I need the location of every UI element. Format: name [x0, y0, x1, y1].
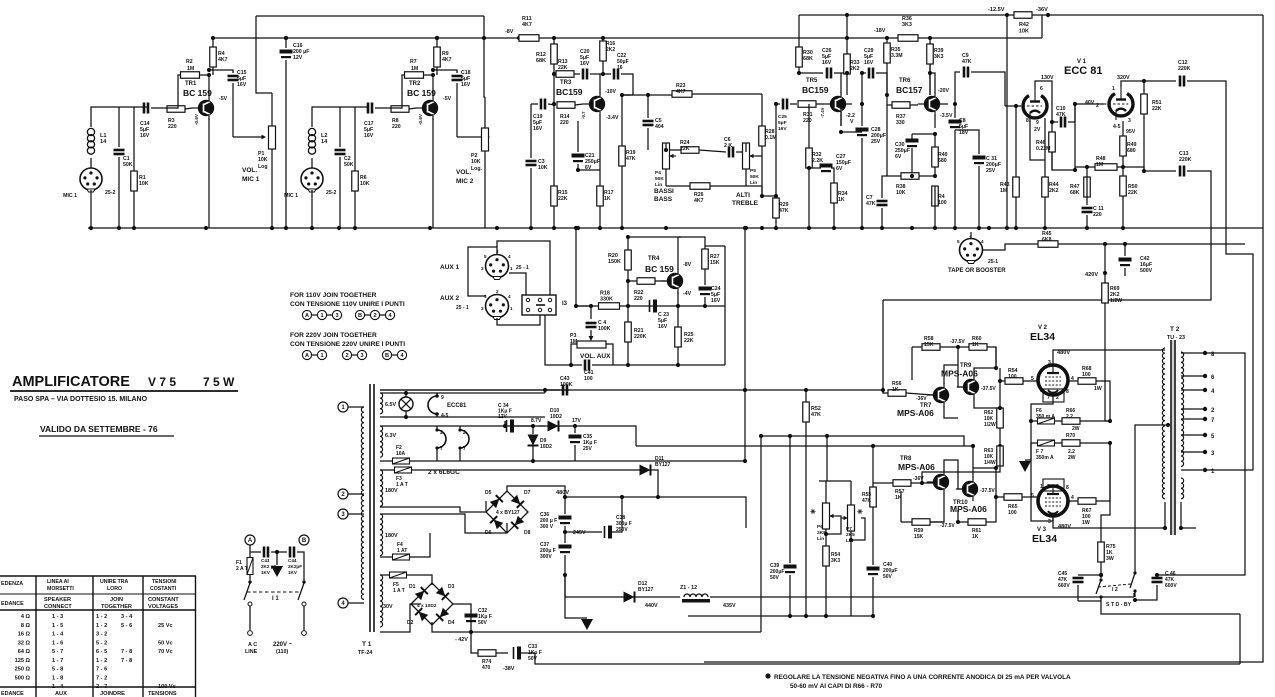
resistor R46 0.22M: [1036, 132, 1077, 172]
svg-text:LINE: LINE: [245, 649, 258, 655]
microphone connector MIC 1: [63, 168, 115, 199]
bridge output top 480V: [507, 486, 569, 499]
svg-text:100K: 100K: [598, 326, 611, 332]
svg-text:50V: 50V: [770, 575, 780, 581]
svg-text:15K: 15K: [924, 342, 934, 348]
svg-text:(110): (110): [276, 649, 288, 655]
svg-text:4: 4: [508, 254, 511, 259]
svg-text:-0.6V: -0.6V: [194, 113, 199, 125]
svg-text:TU - 23: TU - 23: [1167, 335, 1185, 341]
transformer T2 center tap: [1135, 423, 1170, 570]
svg-text:-37.5V: -37.5V: [980, 488, 995, 494]
fuse F4 1AT: [380, 533, 430, 560]
wire -38V rail: [535, 614, 1240, 664]
transistor TR7 MPS-A06: [897, 383, 949, 418]
svg-text:AUX 1: AUX 1: [440, 264, 460, 271]
svg-text:JOIN: JOIN: [110, 597, 123, 603]
wire secondary return: [1181, 527, 1196, 529]
svg-text:22K: 22K: [680, 146, 690, 152]
resistor R48 1M: [1087, 156, 1123, 170]
svg-text:18V: 18V: [959, 130, 969, 136]
svg-text:1K: 1K: [972, 534, 979, 540]
wire input node: [312, 107, 369, 127]
resistor R9 4K7: [431, 36, 452, 77]
wire TR4 box top: [626, 235, 681, 239]
capacitor C43 2K2pF 1KV: [250, 547, 277, 576]
svg-text:UNIRE TRA: UNIRE TRA: [100, 579, 128, 585]
svg-text:16V: 16V: [140, 133, 150, 139]
transformer T1 secondary 30V: [380, 575, 393, 627]
resistor R18 330K: [574, 291, 630, 310]
transformer T1 terminal 1: [338, 402, 364, 412]
svg-text:22K: 22K: [1152, 106, 1162, 112]
svg-text:3: 3: [1048, 360, 1051, 366]
svg-text:-36V: -36V: [1036, 7, 1048, 13]
svg-text:1W: 1W: [1094, 386, 1102, 392]
svg-text:P7: P7: [846, 526, 852, 532]
resistor R13 22K: [552, 59, 580, 77]
svg-text:D6: D6: [485, 530, 492, 536]
svg-text:600V: 600V: [1165, 583, 1177, 589]
resistor R39 3K3: [927, 38, 944, 95]
capacitor C37 200uF 300V: [540, 530, 572, 575]
resistor R63 10K 1/4W: [920, 446, 1003, 485]
svg-text:220K: 220K: [634, 334, 647, 340]
svg-text:5: 5: [484, 254, 487, 259]
svg-text:1W: 1W: [1082, 520, 1090, 526]
wire y446 bus: [636, 444, 975, 468]
transformer T2 primary winding: [1162, 348, 1167, 530]
svg-text:250V: 250V: [616, 527, 628, 533]
svg-text:14: 14: [100, 139, 107, 145]
note for 220V join: [290, 332, 405, 348]
svg-text:VOLTAGES: VOLTAGES: [148, 604, 178, 610]
note 110V join points: [302, 310, 394, 319]
resistor R50 22K: [1120, 167, 1138, 228]
svg-text:2K2pF: 2K2pF: [288, 564, 302, 569]
svg-text:250 Ω: 250 Ω: [15, 667, 31, 673]
diode D12 BY127: [565, 575, 680, 609]
wire winding to bridge: [380, 507, 507, 533]
wire 17V out: [590, 426, 636, 446]
wire mid vertical to driver bus: [743, 226, 747, 392]
svg-text:25 - 1: 25 - 1: [456, 305, 469, 311]
svg-text:BC 159: BC 159: [183, 88, 212, 98]
svg-text:68K: 68K: [803, 56, 813, 62]
svg-text:S T D - BY: S T D - BY: [1106, 602, 1132, 608]
svg-text:P6: P6: [817, 524, 823, 530]
resistor R23 4K7: [646, 83, 762, 97]
capacitor C12 220K: [1144, 60, 1253, 470]
svg-text:14: 14: [321, 139, 328, 145]
wire collector to ground bus: [432, 118, 434, 228]
svg-text:-3.4V: -3.4V: [606, 115, 619, 121]
svg-text:BC157: BC157: [896, 85, 923, 95]
transformer T1 secondary 180V upper: [380, 470, 398, 506]
svg-text:I3: I3: [562, 301, 568, 307]
resistor R22 220 TR4 base: [626, 278, 666, 302]
svg-text:-20V: -20V: [938, 88, 949, 94]
wire F7 junction: [1030, 442, 1032, 444]
svg-text:2W: 2W: [1072, 426, 1080, 432]
diode D11 BY127: [640, 456, 671, 497]
capacitor C3 10K: [526, 104, 548, 228]
wire treble wiper to R29: [746, 156, 776, 196]
wire V1B grid node: [1075, 104, 1104, 170]
svg-text:1KV: 1KV: [288, 570, 298, 575]
svg-text:440V: 440V: [645, 603, 658, 609]
resistor R11 4K7 in rail: [519, 16, 556, 41]
svg-text:47K: 47K: [811, 412, 821, 418]
svg-text:25V: 25V: [871, 139, 881, 145]
svg-text:25V: 25V: [583, 446, 593, 452]
svg-text:V 7 5: V 7 5: [148, 375, 176, 389]
inductor L1 14: [87, 128, 107, 154]
svg-text:47K: 47K: [862, 498, 872, 504]
svg-text:10K: 10K: [471, 159, 481, 165]
svg-text:10K: 10K: [139, 181, 149, 187]
svg-text:7: 7: [440, 446, 443, 452]
svg-text:7 5 W: 7 5 W: [203, 375, 235, 389]
svg-text:660V: 660V: [1058, 583, 1070, 589]
transformer T2 label: [1167, 326, 1185, 341]
svg-text:MIC 1: MIC 1: [242, 176, 260, 183]
wire C15 to pot wiper: [233, 135, 266, 140]
bridge rectifier 4 x BY127: [486, 491, 528, 533]
capacitor C29 body: [860, 48, 887, 106]
wire vol aux ends: [571, 344, 613, 365]
svg-text:MIC 1: MIC 1: [63, 193, 77, 199]
svg-text:47K: 47K: [626, 156, 636, 162]
svg-text:B: B: [358, 313, 362, 319]
svg-text:4 Ω: 4 Ω: [21, 614, 31, 620]
svg-text:25V: 25V: [986, 168, 996, 174]
svg-text:0.1M: 0.1M: [765, 135, 777, 141]
capacitor C18 5uF 16V: [431, 68, 471, 137]
svg-text:C43: C43: [261, 558, 270, 563]
transistor TR4 BC159: [645, 256, 692, 297]
svg-text:2 - 7: 2 - 7: [96, 684, 107, 690]
svg-text:5 - 8: 5 - 8: [52, 667, 63, 673]
label STD-BY: [1106, 602, 1132, 608]
svg-text:EL34: EL34: [1030, 331, 1055, 343]
resistor R3 220: [167, 106, 192, 130]
svg-text:3K3: 3K3: [831, 558, 840, 564]
svg-text:CONNECT: CONNECT: [44, 604, 72, 610]
svg-text:C25: C25: [778, 114, 787, 120]
svg-text:1K: 1K: [838, 197, 845, 203]
resistor R4 4K7: [207, 36, 228, 77]
T2 tap 3: [1181, 450, 1215, 457]
resistor R59 15K: [901, 491, 955, 540]
svg-text:-38V: -38V: [503, 666, 515, 672]
svg-text:220V ~: 220V ~: [273, 642, 293, 648]
svg-text:PASO SPA – VIA DOTTESIO 15.: PASO SPA – VIA DOTTESIO 15. MILANO: [14, 396, 148, 403]
svg-text:4K7: 4K7: [676, 89, 686, 95]
resistor R69 2K2 1/2W: [1102, 283, 1122, 421]
svg-text:6 - 5: 6 - 5: [96, 649, 107, 655]
svg-text:BASS: BASS: [654, 196, 673, 203]
resistor R28 0.1M: [759, 94, 777, 198]
svg-text:68K: 68K: [536, 58, 546, 64]
svg-text:3: 3: [481, 266, 484, 271]
svg-text:10K: 10K: [896, 190, 906, 196]
wire TR4 emitter to box top: [678, 237, 681, 270]
resistor R58 15K: [912, 336, 965, 380]
resistor R15 22K: [551, 104, 568, 228]
svg-text:ECC81: ECC81: [447, 403, 467, 409]
capacitor C39 200uF 50V: [770, 434, 797, 616]
svg-text:2: 2: [496, 289, 499, 294]
wire V1B anode to 320V node: [1121, 79, 1146, 87]
svg-text:3K3: 3K3: [934, 54, 944, 60]
svg-text:CONSTANT: CONSTANT: [148, 597, 179, 603]
wire V3 cathode to fuse bus: [1031, 443, 1053, 521]
svg-text:350 m A: 350 m A: [1036, 414, 1055, 420]
resistor R2 1M feedback: [162, 59, 209, 108]
resistor R24 22K: [648, 140, 726, 153]
svg-text:50K: 50K: [123, 162, 133, 168]
resistor R47 68K: [1070, 165, 1090, 197]
svg-text:100: 100: [938, 200, 947, 206]
resistor R55 47K: [862, 444, 893, 565]
svg-text:BY127: BY127: [638, 587, 654, 593]
resistor R30 68K: [796, 47, 813, 73]
capacitor C14 5uF 16V: [140, 103, 162, 140]
svg-text:3.3M: 3.3M: [891, 53, 903, 59]
svg-text:22K: 22K: [558, 65, 568, 71]
svg-text:680: 680: [1127, 148, 1136, 154]
wire mic ground: [90, 190, 92, 228]
capacitor C15 5uF 16V: [207, 68, 247, 137]
svg-text:22K: 22K: [1128, 190, 1138, 196]
resistor R74 470: [471, 632, 508, 671]
wire -8V supply rail (second): [214, 36, 1042, 40]
svg-text:330: 330: [896, 120, 905, 126]
label -12.5V: [988, 7, 1009, 17]
resistor R6 10K: [352, 107, 370, 228]
svg-text:2: 2: [1056, 484, 1059, 490]
resistor R17 1K: [578, 121, 614, 228]
svg-text:16V: 16V: [822, 60, 832, 66]
svg-text:47K: 47K: [866, 201, 876, 207]
svg-text:3: 3: [481, 306, 484, 311]
wire negative supply rail top: [256, 15, 484, 17]
connector TAPE OR BOOSTER: [948, 235, 1006, 274]
svg-text:7: 7: [463, 446, 466, 452]
svg-text:EDANCE: EDANCE: [1, 691, 24, 697]
svg-text:1 - 4: 1 - 4: [52, 684, 64, 690]
svg-text:Lin: Lin: [817, 536, 824, 542]
resistor R25 22K: [675, 306, 694, 365]
svg-text:- 42V: - 42V: [455, 637, 468, 643]
svg-text:17V: 17V: [572, 418, 582, 424]
microphone connector MIC 1: [284, 168, 336, 199]
svg-text:100: 100: [1008, 374, 1017, 380]
note bias adjustment: [765, 673, 1071, 690]
wire tape connector to amp: [955, 160, 971, 239]
svg-text:1K: 1K: [892, 387, 899, 393]
wire collector to ground bus: [208, 118, 210, 228]
svg-text:220: 220: [803, 118, 812, 124]
svg-text:-18V: -18V: [874, 28, 886, 34]
capacitor C20 5uF 16V: [580, 49, 603, 80]
svg-text:1K: 1K: [972, 342, 979, 348]
svg-text:50K: 50K: [655, 176, 664, 182]
label BASSI BASS: [654, 188, 674, 203]
ground arrow mains: [271, 550, 283, 577]
wire 420V node: [1103, 242, 1107, 283]
resistor R62 10K 1/2W: [984, 368, 1003, 448]
svg-text:5μF: 5μF: [778, 120, 787, 126]
svg-text:16V: 16V: [778, 126, 787, 132]
potentiometer P6 2K5 Lin bias: [810, 481, 836, 546]
wire bias bridge output: [432, 604, 471, 632]
svg-text:1 - 2: 1 - 2: [96, 614, 107, 620]
svg-text:3 - 2: 3 - 2: [96, 632, 107, 638]
label AUX 1: [440, 264, 460, 271]
resistor R8 220: [391, 106, 416, 130]
wire heater bus right: [543, 388, 547, 393]
note 220V join points: [302, 350, 406, 359]
wire -12.5V drop: [1006, 15, 1008, 228]
label -36V: [1036, 7, 1050, 17]
svg-text:2K2: 2K2: [850, 66, 860, 72]
svg-text:1: 1: [510, 266, 513, 271]
transformer T1 label: [358, 641, 372, 656]
wire coupling node: [620, 93, 633, 97]
svg-text:-3.5V: -3.5V: [940, 113, 953, 119]
svg-text:10K: 10K: [258, 157, 268, 163]
wire rail drop at x484: [482, 16, 486, 97]
svg-text:TF-24: TF-24: [358, 650, 372, 656]
svg-text:10D2: 10D2: [550, 414, 562, 420]
svg-text:D4: D4: [448, 620, 455, 626]
svg-text:-0.7: -0.7: [581, 111, 586, 119]
svg-text:3K3: 3K3: [902, 22, 912, 28]
svg-text:16 Ω: 16 Ω: [18, 632, 31, 638]
svg-text:4K7: 4K7: [522, 22, 532, 28]
subtitle VALIDO DA SETTEMBRE-76: [39, 424, 174, 436]
wire TR5 collector down: [839, 115, 843, 134]
svg-text:50K: 50K: [344, 162, 354, 168]
svg-text:B: B: [385, 353, 389, 359]
svg-text:R7: R7: [410, 59, 417, 65]
capacitor C4 100K: [586, 304, 611, 341]
resistor R37 330: [885, 93, 918, 126]
tube V1 triode B: [1085, 75, 1133, 130]
potentiometer P1 10K Log: [242, 93, 276, 228]
svg-text:16V: 16V: [711, 298, 721, 304]
svg-text:ECC 81: ECC 81: [1064, 65, 1103, 77]
svg-text:2: 2: [373, 313, 376, 319]
resistor R12 68K: [536, 38, 557, 104]
svg-text:REGOLARE LA TENSIONE NEGA: REGOLARE LA TENSIONE NEGATIVA FINO A UNA…: [774, 674, 1071, 681]
svg-text:50-60 mV AI CAPI DI R6: 50-60 mV AI CAPI DI R66 - R70: [790, 683, 883, 690]
potentiometer P5 50K Lin treble: [743, 143, 760, 186]
svg-text:6.5V: 6.5V: [385, 402, 396, 408]
resistor R54 100 grid stopper: [998, 368, 1038, 384]
wire aux1 to selector: [468, 247, 526, 296]
potentiometer P3 1M vol aux: [570, 333, 611, 360]
svg-text:-8V: -8V: [683, 262, 692, 268]
svg-text:0.22M: 0.22M: [1036, 146, 1050, 152]
svg-text:7 - 8: 7 - 8: [121, 649, 132, 655]
svg-text:6K8: 6K8: [1042, 237, 1052, 243]
svg-text:TR2: TR2: [409, 81, 421, 87]
svg-text:100: 100: [1008, 510, 1017, 516]
svg-text:12V: 12V: [498, 414, 508, 420]
transistor TR5 BC159: [802, 78, 855, 125]
transformer T1 core: [370, 384, 374, 632]
svg-text:JOINDRE: JOINDRE: [100, 691, 125, 697]
svg-text:TENSIONS: TENSIONS: [148, 691, 177, 697]
svg-text:220: 220: [1093, 212, 1102, 218]
svg-text:TR5: TR5: [806, 78, 818, 84]
svg-text:95V: 95V: [1126, 129, 1136, 135]
capacitor C6 2K: [724, 137, 746, 158]
svg-text:180V: 180V: [385, 533, 398, 539]
wire bridge to caps: [486, 501, 507, 533]
resistor R42 10K: [1014, 12, 1032, 35]
svg-text:12V: 12V: [293, 55, 303, 61]
terminal B: [299, 535, 309, 545]
svg-text:10D2: 10D2: [540, 444, 552, 450]
svg-text:22K: 22K: [558, 196, 568, 202]
svg-text:1 - 4: 1 - 4: [52, 632, 64, 638]
svg-text:P5: P5: [750, 168, 756, 174]
svg-text:5 - 2: 5 - 2: [96, 640, 107, 646]
tube V3 EL34: [1031, 484, 1074, 545]
svg-text:ALTI: ALTI: [736, 192, 750, 199]
resistor R33 2K2: [844, 36, 860, 95]
svg-text:1: 1: [1112, 86, 1115, 92]
capacitor C34 1KuF 12V: [498, 403, 542, 433]
svg-text:25 Vc: 25 Vc: [158, 623, 173, 629]
svg-text:1K: 1K: [604, 196, 611, 202]
svg-text:47K: 47K: [1056, 112, 1066, 118]
svg-text:7: 7: [1047, 395, 1050, 401]
resistor R53 3K3: [823, 546, 841, 618]
tube heaters 2 x 6L6GC: [428, 426, 469, 476]
switch I2 standby pole A: [1096, 573, 1103, 601]
choke Z1-12: [680, 585, 747, 609]
svg-text:5 - 6: 5 - 6: [121, 623, 132, 629]
svg-text:6: 6: [1040, 86, 1043, 92]
svg-text:VOL.: VOL.: [456, 169, 471, 176]
svg-text:16V: 16V: [364, 133, 374, 139]
svg-text:2.2: 2.2: [1066, 414, 1073, 420]
svg-text:220: 220: [560, 120, 569, 126]
svg-text:TR1: TR1: [185, 81, 197, 87]
svg-text:130V: 130V: [1041, 75, 1054, 81]
svg-text:D8: D8: [524, 530, 531, 536]
svg-text:BC159: BC159: [802, 85, 829, 95]
resistor R7 1M feedback: [386, 59, 433, 108]
resistor R19 47K: [619, 95, 636, 228]
resistor R65 100: [994, 494, 1038, 516]
capacitor C7 47K: [866, 176, 888, 228]
svg-text:EDANCE: EDANCE: [1, 601, 24, 607]
svg-text:1/4W: 1/4W: [984, 460, 996, 466]
svg-text:CON TENSIONE 220V UNIRE I: CON TENSIONE 220V UNIRE I PUNTI: [290, 341, 405, 348]
svg-text:4K7: 4K7: [442, 57, 452, 63]
svg-text:1: 1: [320, 353, 323, 359]
svg-text:I 2: I 2: [1112, 587, 1118, 593]
svg-text:1/2W: 1/2W: [1110, 298, 1122, 304]
svg-text:7 - 2: 7 - 2: [96, 675, 107, 681]
svg-text:3: 3: [360, 353, 363, 359]
